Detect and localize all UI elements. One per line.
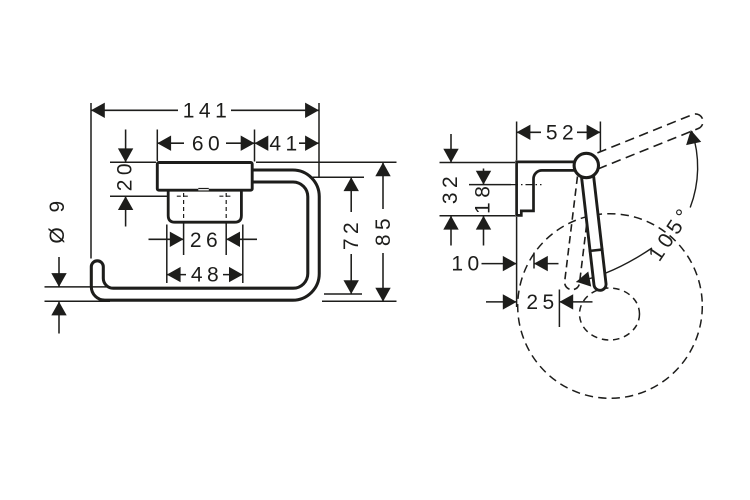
svg-text:Ø 9: Ø 9 bbox=[46, 196, 69, 243]
svg-text:18: 18 bbox=[471, 182, 494, 214]
svg-text:10: 10 bbox=[451, 253, 483, 276]
extension line 60 left bbox=[156, 130, 158, 162]
plate bottom seam notch bbox=[198, 188, 209, 190]
extension line plate top left bbox=[110, 161, 156, 163]
dimension 85 bbox=[382, 162, 384, 209]
arm hanging position (dashed) bbox=[565, 165, 594, 290]
extension line 85 top bbox=[256, 161, 397, 163]
angle arc 105 upper part bbox=[690, 131, 697, 207]
roll outer circle (dashed) bbox=[518, 214, 703, 399]
extension line 25 right bbox=[558, 290, 560, 328]
extension line 48 left bbox=[166, 225, 168, 284]
screw tick right bbox=[219, 195, 233, 197]
dimension 141 bbox=[91, 109, 178, 111]
extension line 141 left bbox=[90, 103, 92, 259]
extension line 52 right bbox=[599, 122, 601, 153]
svg-text:85: 85 bbox=[372, 214, 395, 246]
angle leader to arm tip bbox=[577, 248, 653, 282]
arm inner white bbox=[586, 166, 600, 285]
extension line 85 bottom bbox=[322, 300, 397, 302]
extension line 26 left below bbox=[183, 223, 185, 256]
wall bracket below plate bbox=[168, 190, 241, 222]
screw hole centerline right (dashed) bbox=[225, 193, 227, 223]
arm raised position (dashed) bbox=[584, 114, 704, 173]
dimension dia 9 bbox=[58, 257, 60, 287]
extension line 72 top bbox=[310, 176, 364, 178]
extension line plate bottom left bbox=[440, 215, 516, 217]
dimension 20 bbox=[125, 130, 127, 163]
arm joint crossbar bbox=[589, 249, 604, 251]
svg-text:72: 72 bbox=[340, 218, 363, 250]
extension line plate inner face bbox=[533, 253, 535, 269]
dimension 25 bbox=[486, 301, 517, 303]
dimension 52 bbox=[517, 131, 541, 133]
wall plate side profile bbox=[517, 162, 585, 216]
solid arm down position bbox=[586, 166, 600, 285]
extension line 72 bottom bbox=[324, 293, 362, 295]
arrow at raised arm bbox=[683, 128, 701, 145]
svg-text:25: 25 bbox=[526, 291, 558, 314]
extension line 52 left bbox=[516, 122, 518, 161]
svg-text:141: 141 bbox=[183, 99, 232, 122]
dimension 10 bbox=[482, 263, 517, 265]
arrow at lowered arm bbox=[575, 272, 591, 290]
extension line 48 right bbox=[242, 225, 244, 284]
extension line bar top left (dia9) bbox=[45, 286, 111, 288]
svg-text:60: 60 bbox=[192, 132, 224, 155]
svg-text:32: 32 bbox=[439, 172, 462, 204]
pivot knob bbox=[574, 153, 598, 177]
screw hole centerline left (dashed) bbox=[183, 193, 185, 223]
dimension 48 bbox=[167, 274, 186, 276]
extension line screw level left bbox=[110, 195, 168, 197]
svg-text:20: 20 bbox=[114, 159, 137, 191]
screw centerline across plate (dash-dot) bbox=[511, 184, 542, 186]
extension line 60/41 boundary bbox=[254, 130, 256, 162]
dimension 32 bbox=[450, 134, 452, 163]
dimension 26 bbox=[149, 238, 184, 240]
dimension 72 bbox=[350, 177, 352, 212]
svg-text:26: 26 bbox=[190, 229, 222, 252]
roll core circle (dashed) bbox=[580, 288, 640, 340]
cover plate bbox=[157, 163, 252, 191]
extension line wall face lower bbox=[516, 217, 518, 307]
screw tick left bbox=[177, 195, 191, 197]
extension line screw level (18 top) bbox=[469, 184, 511, 186]
svg-text:41: 41 bbox=[269, 132, 301, 155]
dimension 18 bbox=[483, 169, 485, 185]
extension line plate top left bbox=[440, 162, 516, 164]
roll holder bar bbox=[91, 170, 319, 300]
dimension 60 bbox=[157, 142, 184, 144]
svg-text:48: 48 bbox=[191, 264, 223, 287]
extension line bar bottom left (dia9) bbox=[45, 300, 111, 302]
dimension 41 bbox=[255, 142, 267, 144]
extension line 141/41 right bbox=[318, 103, 320, 177]
svg-text:52: 52 bbox=[546, 121, 578, 144]
extension line 26 right below bbox=[225, 223, 227, 256]
